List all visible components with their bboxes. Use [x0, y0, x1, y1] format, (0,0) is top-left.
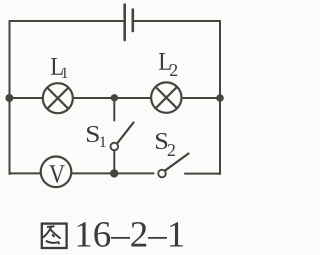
lamp L2	[151, 82, 181, 112]
switch S1	[111, 123, 134, 151]
wire: right rail	[219, 21, 221, 174]
caption character 图 drawn as path	[42, 224, 67, 248]
voltmeter U1	[41, 157, 72, 188]
wire: middle rail, lamp L2 to right rail	[182, 97, 221, 99]
label L2	[159, 53, 177, 76]
node: junction of middle rail and right rail	[216, 94, 224, 102]
wire: bottom rail, switch S2 to right rail	[185, 173, 220, 175]
label L1	[51, 58, 68, 78]
wire: bottom rail, voltmeter to switch S2	[71, 172, 153, 174]
lamp L1	[43, 83, 73, 113]
caption text 16-2-1	[78, 222, 184, 247]
wire: S1 branch from middle rail down to switch	[113, 98, 115, 121]
label S1	[87, 126, 106, 147]
node: junction of middle rail and left rail	[5, 94, 13, 102]
wire: top rail right of battery	[133, 20, 220, 22]
node: junction of bottom rail and S1 branch	[110, 169, 118, 177]
label V of voltmeter	[49, 165, 64, 183]
wire: top rail left of battery	[10, 20, 125, 22]
wire: left rail	[9, 21, 11, 174]
wire: bottom rail, left rail to voltmeter	[10, 172, 42, 174]
switch S2	[158, 154, 188, 178]
wire: middle rail, left rail to lamp L1	[10, 97, 43, 99]
node: junction of middle rail and S1 branch	[111, 94, 118, 101]
wire: S1 pivot to bottom rail	[113, 150, 115, 173]
battery B1	[125, 5, 133, 41]
label S2	[156, 133, 175, 156]
wire: middle rail, lamp L1 to lamp L2	[73, 97, 151, 99]
